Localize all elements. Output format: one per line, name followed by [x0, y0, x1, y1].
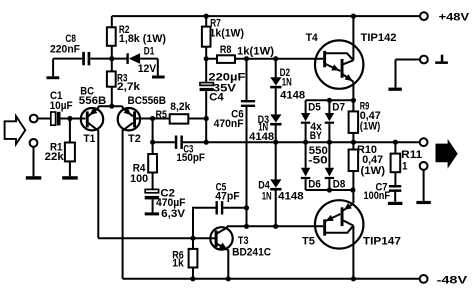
svg-text:470nF: 470nF [214, 118, 244, 130]
svg-text:470µF: 470µF [156, 197, 186, 209]
svg-text:220nF: 220nF [50, 43, 80, 55]
svg-text:1k: 1k [172, 257, 184, 269]
svg-text:1N: 1N [262, 190, 272, 202]
svg-text:R11: R11 [401, 149, 422, 161]
svg-text:1: 1 [402, 160, 408, 172]
svg-text:D7: D7 [332, 101, 345, 113]
svg-text:R8: R8 [220, 44, 232, 56]
svg-text:1k(1W): 1k(1W) [210, 27, 245, 39]
svg-text:D5: D5 [308, 101, 321, 113]
svg-text:47pF: 47pF [215, 191, 240, 203]
svg-text:C4: C4 [209, 92, 224, 104]
svg-text:D1: D1 [144, 46, 155, 58]
svg-text:2,7k: 2,7k [117, 81, 141, 93]
svg-text:+48V: +48V [439, 11, 470, 23]
svg-text:556B: 556B [79, 95, 107, 107]
svg-text:R5: R5 [156, 109, 168, 121]
svg-text:BD241C: BD241C [232, 247, 271, 259]
svg-text:8,2k: 8,2k [170, 101, 191, 113]
svg-text:4148: 4148 [278, 190, 304, 202]
svg-text:T2: T2 [128, 133, 141, 145]
svg-text:T3: T3 [238, 235, 249, 247]
svg-text:D6: D6 [308, 179, 321, 191]
svg-text:10µF: 10µF [50, 100, 73, 112]
svg-text:-48V: -48V [437, 274, 468, 286]
svg-text:1,8k (1W): 1,8k (1W) [119, 33, 166, 45]
svg-text:TIP142: TIP142 [361, 32, 397, 44]
svg-text:T5: T5 [302, 236, 315, 248]
svg-text:BC556B: BC556B [128, 95, 167, 107]
svg-text:150pF: 150pF [176, 152, 205, 164]
svg-text:100nF: 100nF [364, 190, 391, 202]
svg-text:4148: 4148 [249, 131, 274, 143]
svg-text:100: 100 [130, 173, 148, 185]
svg-text:22k: 22k [45, 151, 65, 163]
svg-text:-50: -50 [308, 154, 328, 166]
svg-text:(1W): (1W) [361, 165, 386, 177]
svg-text:1N: 1N [282, 76, 292, 88]
svg-text:(1W): (1W) [360, 121, 381, 133]
svg-text:4148: 4148 [280, 89, 305, 101]
svg-text:D8: D8 [333, 179, 346, 191]
svg-text:TIP147: TIP147 [363, 236, 401, 248]
svg-text:6,3V: 6,3V [161, 208, 186, 220]
svg-text:1k(1W): 1k(1W) [237, 45, 274, 57]
svg-text:12V: 12V [138, 63, 157, 75]
svg-text:T1: T1 [83, 133, 95, 145]
svg-text:T4: T4 [306, 32, 319, 44]
svg-text:0,47: 0,47 [362, 154, 383, 166]
svg-text:BY: BY [310, 130, 323, 142]
